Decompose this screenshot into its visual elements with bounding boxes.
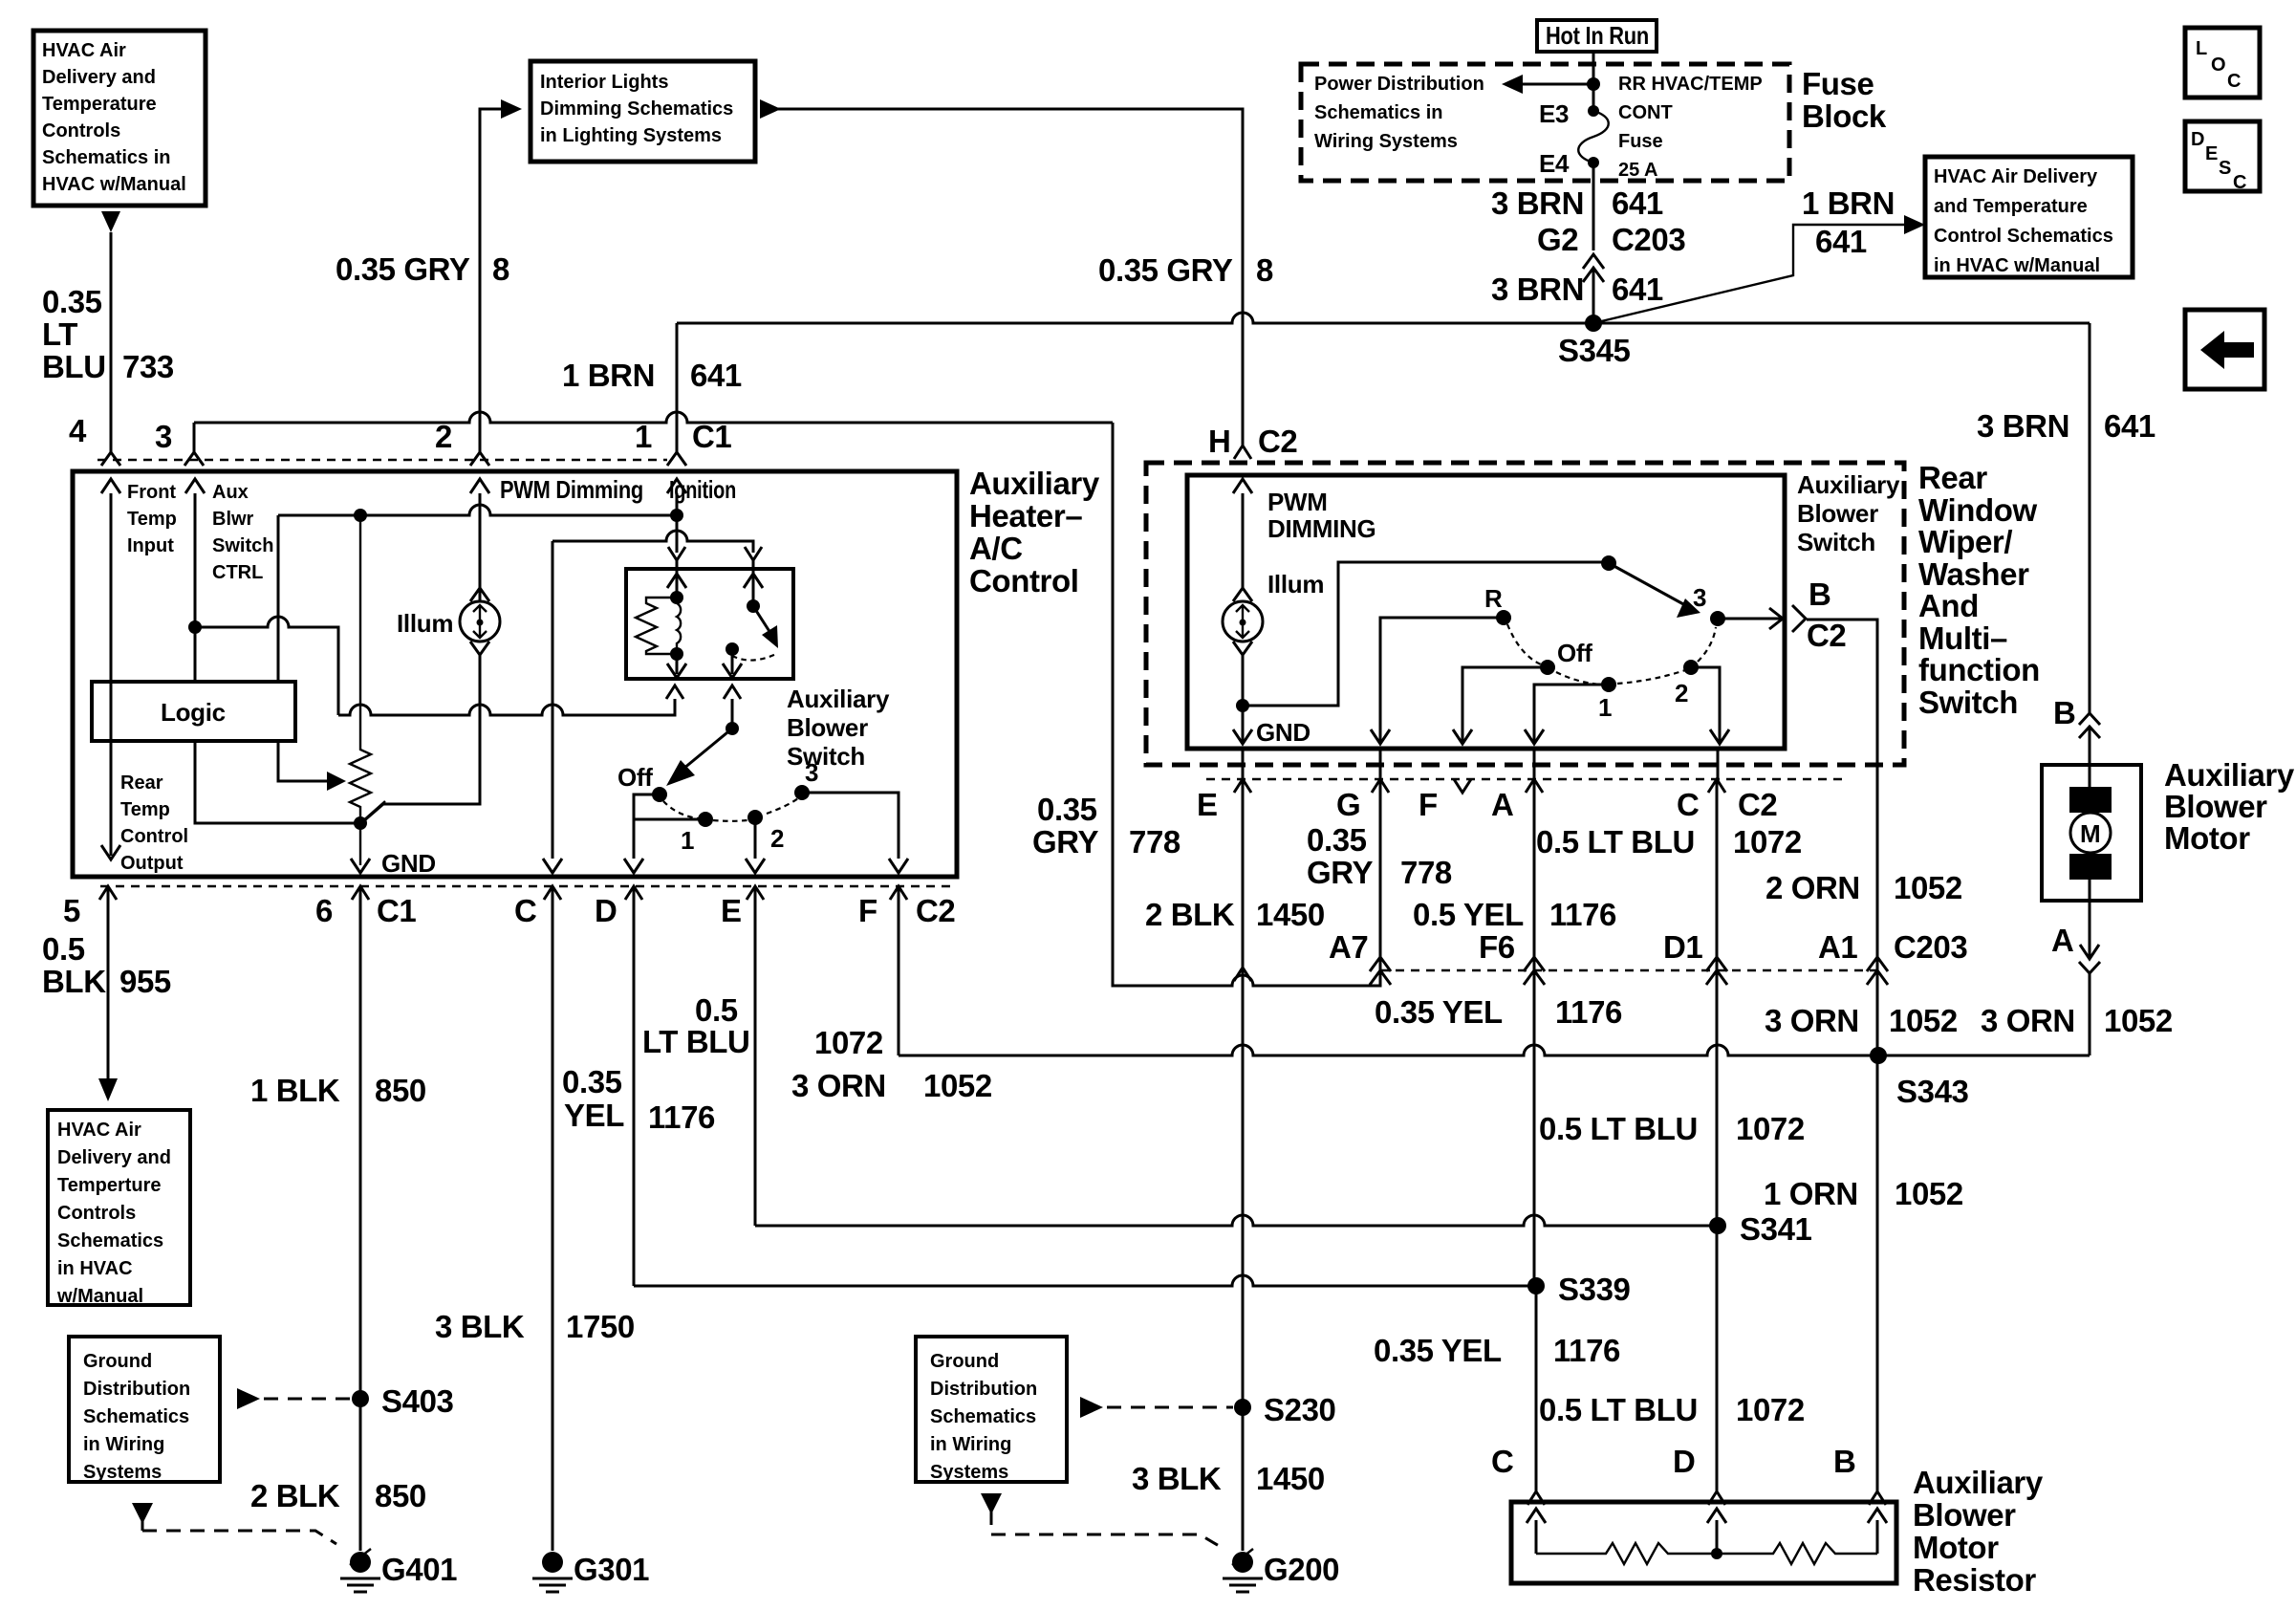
svg-text:1: 1 [681, 826, 694, 855]
svg-text:1176: 1176 [1549, 897, 1616, 932]
svg-text:Blwr: Blwr [212, 509, 254, 530]
svg-text:1052: 1052 [1894, 870, 1962, 905]
wire 3 to pin F [802, 793, 908, 873]
pin arrow up pin4 inside [110, 493, 113, 856]
svg-text:G301: G301 [574, 1552, 649, 1587]
wire pin3 stub to bus [193, 423, 196, 452]
label Fuse Block [1802, 66, 1887, 134]
svg-text:S341: S341 [1740, 1211, 1812, 1247]
switch contact Off (wiper) [1540, 660, 1555, 675]
wire logic to GND net [195, 741, 360, 823]
svg-text:1 ORN: 1 ORN [1764, 1176, 1858, 1211]
svg-text:3: 3 [805, 758, 818, 787]
svg-text:Switch: Switch [787, 742, 865, 771]
connector double chevron motor B [2079, 713, 2100, 738]
svg-text:O: O [2211, 54, 2226, 76]
svg-text:Blower: Blower [2164, 789, 2267, 824]
svg-text:1 BRN: 1 BRN [1802, 185, 1895, 221]
svg-text:DIMMING: DIMMING [1267, 514, 1375, 543]
wire C (wiper) 0.5 LT BLU 1072 down to S341 and resistor D [1716, 781, 1719, 1491]
label 0.5 / LT BLU / 1072 (heater E) [642, 992, 883, 1060]
svg-text:2 BLK: 2 BLK [1145, 897, 1235, 932]
svg-text:Ground: Ground [930, 1351, 999, 1372]
svg-text:S345: S345 [1558, 333, 1631, 368]
node splice S341 [1709, 1217, 1726, 1234]
wire C203 to S345 [1592, 268, 1595, 323]
svg-text:Schematics: Schematics [930, 1406, 1036, 1427]
wire y566 pinC bus to subbox right pin [552, 531, 753, 553]
wire ignition into subbox [676, 515, 679, 553]
arrow into HVAC box from wire 733 [101, 211, 120, 232]
motor brush top [2069, 787, 2112, 813]
wire 1 to pin D vertical [634, 818, 705, 821]
component: Rear Window Wiper/Washer Multifunction Switch dashed box [1146, 463, 1904, 765]
svg-text:8: 8 [1256, 252, 1273, 288]
wire Hot In Run down into fuse block [1592, 52, 1595, 109]
svg-text:1: 1 [635, 419, 652, 454]
potentiometer wiper slash [360, 801, 385, 823]
pin arrow up pin3 (Aux Blwr Switch CTRL) [194, 493, 197, 682]
wire E (wiper) 2 BLK 1450 down to S230/G200 [1242, 781, 1245, 1551]
svg-text:Distribution: Distribution [930, 1379, 1037, 1400]
svg-text:A: A [2051, 923, 2073, 958]
switch contact Off [652, 787, 667, 802]
switch contact 3 [794, 785, 810, 800]
terminal Y pin E (wiper) [1234, 779, 1251, 793]
component: Auxiliary Heater A/C Control box [73, 471, 957, 877]
wire 1 BRN 641: S345 bus y338 from pin1 vertical to motor corner [677, 313, 2090, 323]
node dot GND junction (377,861) [354, 816, 367, 830]
svg-text:E: E [721, 893, 742, 928]
off-page box: HVAC Air Delivery (bottom-left) [48, 1110, 190, 1307]
svg-text:Block: Block [1802, 98, 1887, 134]
svg-text:M: M [2080, 819, 2100, 848]
svg-text:A7: A7 [1329, 929, 1368, 965]
label Rear Window Wiper/ Washer And Multi-function Switch [1918, 460, 2040, 720]
legend box back-arrow [2185, 310, 2264, 389]
svg-text:1052: 1052 [1889, 1003, 1958, 1038]
wire into motor [2089, 727, 2091, 765]
svg-text:Schematics: Schematics [57, 1230, 163, 1251]
wire 3 BRN 641 down to motor B [2089, 323, 2091, 713]
svg-text:PWM: PWM [1267, 488, 1328, 516]
svg-text:C: C [2227, 71, 2241, 92]
terminal Y pin 4 [101, 452, 120, 466]
connector G2/C203 double chevron [1583, 254, 1604, 282]
label 0.35 GRY / 778 (x1164 wire) [1032, 792, 1180, 859]
fuse element RR HVAC/TEMP CONT Fuse 25A: E3/E4 dots and S-curve [1588, 105, 1599, 117]
svg-text:function: function [1918, 652, 2040, 687]
svg-text:B: B [1809, 577, 1830, 612]
svg-text:Hot In Run: Hot In Run [1546, 21, 1649, 50]
svg-text:3: 3 [1693, 583, 1706, 612]
terminal Y ignition pin [668, 547, 685, 560]
off-page box: HVAC Air Delivery and Temperature Control (right) [1925, 157, 2133, 277]
component: Logic box [92, 682, 295, 741]
svg-text:641: 641 [1612, 185, 1663, 221]
arrowhead down on motor A wire [2080, 945, 2099, 959]
svg-text:Blower: Blower [787, 713, 868, 742]
motor circle M [2070, 813, 2111, 853]
svg-text:E: E [2205, 143, 2218, 164]
svg-text:HVAC Air: HVAC Air [42, 40, 126, 61]
label Aux Blwr Switch CTRL [212, 482, 273, 583]
svg-text:R: R [1484, 584, 1503, 613]
svg-text:3 BRN: 3 BRN [1491, 185, 1584, 221]
terminal Y pin C (wiper) [1708, 779, 1725, 793]
node dot at (204,656) [188, 620, 202, 634]
wire pinE 0.5 LT BLU 1072 down to S341 bus [754, 888, 757, 1226]
terminal Y pinF [890, 886, 907, 900]
pin B sideways Y [1792, 605, 1806, 632]
chevrons A1/C203 on B wire [1867, 957, 1888, 985]
subbox moving contact dot [726, 642, 739, 656]
fuse block dashed box [1301, 64, 1789, 181]
svg-text:in HVAC: in HVAC [57, 1258, 133, 1279]
wire pin6 1 BLK 850 to G401 [359, 888, 362, 1551]
terminal Y pin 1 [667, 452, 686, 466]
svg-text:F6: F6 [1479, 929, 1515, 965]
svg-text:HVAC Air: HVAC Air [57, 1120, 141, 1141]
svg-text:3: 3 [155, 419, 172, 454]
wire 0.35 LT BLU 733 (pin 4) [110, 232, 113, 452]
dashed pointer right GDS to S230 [1080, 1397, 1103, 1418]
wire pin2 up to interior lights box with arrow [480, 109, 501, 452]
svg-text:5: 5 [63, 893, 80, 928]
svg-text:0.5 LT BLU: 0.5 LT BLU [1536, 824, 1695, 859]
svg-text:HVAC Air Delivery: HVAC Air Delivery [1934, 166, 2098, 187]
svg-text:Power Distribution: Power Distribution [1314, 74, 1484, 95]
connector C203 dashed line [1380, 969, 1885, 971]
dashed arc wiper switch R-Off-1-2-3 [1507, 624, 1716, 685]
wire lamp down to pot wiper tap [362, 655, 480, 822]
svg-text:Washer: Washer [1918, 556, 2029, 592]
svg-text:Ground: Ground [83, 1351, 152, 1372]
svg-text:0.5 LT BLU: 0.5 LT BLU [1539, 1392, 1698, 1427]
svg-text:C2: C2 [1738, 787, 1777, 822]
label 0.5 BLK / 955 [42, 931, 171, 999]
wire A below S339 to resistor C [1535, 1286, 1538, 1491]
wiper switch pivot dot and arm arrow [1601, 555, 1616, 571]
wire stub A pin through dashed box [1533, 749, 1536, 779]
component: auxiliary blower switch inner box [1187, 475, 1785, 749]
svg-text:0.5 LT BLU: 0.5 LT BLU [1539, 1111, 1698, 1146]
svg-text:E4: E4 [1539, 149, 1570, 178]
svg-text:1072: 1072 [1733, 824, 1802, 859]
svg-text:3 ORN: 3 ORN [1765, 1003, 1859, 1038]
svg-text:G2: G2 [1537, 222, 1578, 257]
svg-text:w/Manual: w/Manual [56, 1286, 143, 1307]
svg-text:0.5: 0.5 [42, 931, 85, 967]
svg-text:C2: C2 [1258, 424, 1297, 459]
switch contact R [1496, 610, 1511, 625]
connector C2 dashed line (wiper bottom) [1206, 778, 1845, 780]
label 0.35 / GRY / 778 (G wire) [1307, 822, 1452, 890]
svg-text:6: 6 [315, 893, 333, 928]
terminal Y pin6 [352, 886, 369, 900]
svg-text:HVAC w/Manual: HVAC w/Manual [42, 174, 186, 195]
svg-text:Auxiliary: Auxiliary [2164, 757, 2295, 793]
wire x291 down with hop over y656 to pot arrow [277, 515, 280, 682]
arrowhead pointing right at potentiometer [327, 772, 346, 791]
svg-text:4: 4 [69, 413, 87, 448]
label Rear Temp Control Output [120, 772, 188, 874]
svg-text:YEL: YEL [564, 1098, 624, 1133]
svg-text:Off: Off [617, 763, 653, 792]
svg-text:Auxiliary: Auxiliary [1913, 1465, 2044, 1500]
wire feed to wiper pivot [1243, 562, 1609, 706]
chevrons A7/C203 on G wire [1370, 957, 1391, 985]
pin arrow down GND (wiper) [1233, 729, 1252, 744]
svg-text:Fuse: Fuse [1618, 131, 1663, 152]
svg-text:1450: 1450 [1256, 897, 1325, 932]
node dot subbox bottom [670, 647, 683, 661]
svg-text:25 A: 25 A [1618, 160, 1658, 181]
wire lamp to GND pin with branch to switch feed [1242, 655, 1245, 744]
wire to Power Distribution with left arrow [1523, 83, 1593, 86]
svg-text:Schematics: Schematics [83, 1406, 189, 1427]
terminal Y resistor C [1527, 1491, 1545, 1505]
legend box LOC [2185, 28, 2260, 98]
label Auxiliary Heater A/C Control [969, 466, 1100, 598]
svg-text:Wiring Systems: Wiring Systems [1314, 131, 1458, 152]
svg-text:Fuse: Fuse [1802, 66, 1874, 101]
svg-text:2: 2 [435, 419, 452, 454]
off-page box: Ground Distribution (left) [69, 1337, 220, 1483]
svg-text:Illum: Illum [1267, 570, 1324, 598]
pin arrow up into subbox (right pin) [744, 560, 763, 606]
switch contact 3 (wiper) [1710, 611, 1725, 626]
switch contact 2 (wiper) [1683, 660, 1699, 675]
svg-text:PWM Dimming: PWM Dimming [500, 475, 643, 504]
svg-text:Control Schematics: Control Schematics [1934, 226, 2113, 247]
chevrons F6/C203 on A wire [1524, 957, 1545, 985]
svg-text:G200: G200 [1264, 1552, 1339, 1587]
wire 2 to pin E [746, 817, 765, 873]
switch contact in subbox: pivot dot and arrow [747, 599, 760, 613]
svg-text:3 ORN: 3 ORN [1981, 1003, 2075, 1038]
svg-text:C: C [1677, 787, 1699, 822]
svg-text:D: D [595, 893, 617, 928]
svg-text:1750: 1750 [566, 1309, 635, 1344]
node dot lamp/feed junction [1236, 699, 1249, 712]
svg-text:Output: Output [120, 853, 184, 874]
svg-text:in Lighting Systems: in Lighting Systems [540, 125, 722, 146]
node dot at (377,539) [354, 509, 367, 522]
wire stub G pin through dashed box [1379, 749, 1382, 779]
svg-text:LT BLU: LT BLU [642, 1024, 749, 1059]
ground symbol G401 [340, 1552, 380, 1592]
svg-text:BLK: BLK [42, 964, 106, 999]
svg-text:Motor: Motor [2164, 820, 2250, 856]
wire R to pin G [1371, 618, 1504, 744]
node splice S403 [352, 1390, 369, 1407]
resistor internal bus with two zigzag resistors [1536, 1543, 1877, 1564]
label Auxiliary Blower Motor Resistor [1913, 1465, 2044, 1598]
chevron pin F (no wire) [1454, 779, 1471, 793]
svg-text:1072: 1072 [1736, 1392, 1805, 1427]
svg-text:Control: Control [120, 826, 188, 847]
svg-text:C2: C2 [1807, 618, 1846, 653]
node: PWM dimming bus y442 from pin3 to x1164 with hops [194, 412, 1113, 423]
svg-text:And: And [1918, 588, 1979, 623]
svg-text:in Wiring: in Wiring [930, 1434, 1011, 1455]
wire stub C pin through dashed box [1717, 749, 1720, 779]
svg-text:C1: C1 [692, 419, 731, 454]
wire pin C vertical inside heater box [543, 541, 562, 873]
label 0.35 LT BLU [42, 284, 106, 384]
label RR HVAC/TEMP CONT Fuse 25 A [1618, 74, 1763, 181]
svg-text:2 BLK: 2 BLK [250, 1478, 340, 1513]
svg-text:Interior Lights: Interior Lights [540, 72, 668, 93]
svg-text:S: S [2219, 158, 2231, 179]
terminal Y pinD [625, 886, 642, 900]
svg-text:850: 850 [375, 1073, 426, 1108]
svg-text:1: 1 [1598, 693, 1612, 722]
svg-text:D1: D1 [1663, 929, 1702, 965]
inline chevron on E wire at C203 level [1234, 968, 1251, 981]
svg-text:Ignition: Ignition [669, 475, 736, 504]
svg-text:1176: 1176 [1553, 1333, 1620, 1368]
svg-text:Systems: Systems [83, 1462, 162, 1483]
pin arrow down GND [351, 859, 370, 873]
wire 2 to pin C [1691, 667, 1729, 744]
svg-text:Switch: Switch [1918, 685, 2018, 720]
svg-text:E: E [1197, 787, 1218, 822]
node splice S339 [1527, 1277, 1545, 1295]
terminal Y pin G [1372, 779, 1389, 793]
wire Off to pin D vertical [634, 794, 660, 859]
wire S345 branch to HVAC w/Manual box (diagonal) [1593, 225, 1908, 323]
svg-text:D: D [1673, 1444, 1695, 1479]
label Auxiliary Blower Switch (wiper) [1797, 470, 1900, 556]
wire S339 bus y1345 to S339 dot [634, 1275, 1536, 1286]
label 0.35 / YEL / 1176 (heater D) [562, 1064, 715, 1135]
svg-text:S403: S403 [381, 1383, 454, 1419]
component: fan-resistor subbox [626, 569, 793, 679]
svg-text:Wiper/: Wiper/ [1918, 524, 2012, 559]
svg-text:F: F [1419, 787, 1438, 822]
svg-text:778: 778 [1400, 855, 1452, 890]
svg-text:Front: Front [127, 482, 176, 503]
ground symbol G301 [532, 1552, 573, 1592]
arrowhead into interior lights box [501, 99, 522, 119]
svg-text:Off: Off [1557, 639, 1592, 667]
svg-text:CTRL: CTRL [212, 562, 263, 583]
svg-text:G: G [1336, 787, 1360, 822]
svg-text:0.5 YEL: 0.5 YEL [1413, 897, 1524, 932]
svg-text:8: 8 [492, 251, 509, 287]
svg-text:and Temperature: and Temperature [1934, 196, 2088, 217]
svg-text:641: 641 [2104, 408, 2155, 444]
label Front Temp Input [127, 482, 177, 556]
svg-text:1072: 1072 [814, 1025, 883, 1060]
wire y656 from aux dot to corner x354 [195, 617, 338, 715]
wire interior-lights to H pin corner [777, 109, 1243, 446]
svg-text:778: 778 [1129, 824, 1180, 859]
svg-text:S343: S343 [1896, 1074, 1969, 1109]
wire 1 to pin A [1525, 685, 1609, 744]
svg-text:C203: C203 [1612, 222, 1685, 257]
node splice S230 [1234, 1399, 1251, 1416]
svg-text:C203: C203 [1894, 929, 1967, 965]
svg-text:Auxiliary: Auxiliary [787, 685, 890, 713]
svg-text:GND: GND [1256, 718, 1310, 747]
pin arrow up pin1 Ignition [676, 493, 679, 515]
pin arrow up into subbox (left pin) [667, 560, 686, 598]
terminal Y resistor D [1708, 1491, 1725, 1505]
svg-text:3 ORN: 3 ORN [791, 1068, 886, 1103]
svg-text:Delivery and: Delivery and [57, 1147, 171, 1168]
resistor internal pins with arrows [1527, 1509, 1546, 1554]
off-page box: Ground Distribution (right) [916, 1337, 1067, 1483]
svg-text:LT: LT [42, 316, 77, 352]
svg-text:0.35: 0.35 [42, 284, 102, 319]
component: Illum lamp (wiper) [1223, 588, 1263, 655]
motor brush bottom [2069, 854, 2112, 880]
svg-text:S339: S339 [1558, 1272, 1631, 1307]
wire A (wiper) 0.35 YEL 1176 down to S339 [1533, 781, 1536, 1286]
svg-text:C: C [2233, 172, 2246, 193]
svg-text:641: 641 [1815, 224, 1867, 259]
svg-text:C1: C1 [377, 893, 416, 928]
svg-text:1052: 1052 [2104, 1003, 2173, 1038]
component: potentiometer (rear temp) zigzag [350, 515, 371, 865]
arrowhead down to HVAC box [98, 1078, 118, 1101]
svg-text:641: 641 [1612, 272, 1663, 307]
svg-text:0.35 GRY: 0.35 GRY [336, 251, 470, 287]
pin arrow down from subbox contact [723, 649, 742, 678]
pin arrow down out of subbox [667, 654, 686, 678]
svg-text:0.5: 0.5 [695, 992, 738, 1028]
label Power Distribution Schematics in Wiring Systems [1314, 74, 1484, 152]
svg-text:3 BRN: 3 BRN [1491, 272, 1584, 307]
svg-text:Blower: Blower [1797, 499, 1878, 528]
svg-text:850: 850 [375, 1478, 426, 1513]
svg-text:D: D [2191, 129, 2204, 150]
svg-text:Temperature: Temperature [42, 94, 157, 115]
connector C1 dashed line top [97, 459, 667, 461]
wire fuse to C203 connector [1592, 163, 1595, 250]
svg-text:Systems: Systems [930, 1462, 1008, 1483]
connector chevrons motor A at C203 [2079, 962, 2100, 973]
svg-text:1052: 1052 [923, 1068, 992, 1103]
ground symbol G200 [1223, 1552, 1263, 1592]
terminal Y subbox right pin [745, 547, 762, 560]
node dot subbox top [670, 591, 683, 604]
svg-text:GRY: GRY [1032, 824, 1098, 859]
svg-text:0.35 GRY: 0.35 GRY [1098, 252, 1233, 288]
wire Off to pin F (unused) [1453, 667, 1548, 744]
svg-text:1052: 1052 [1895, 1176, 1963, 1211]
svg-text:1 BRN: 1 BRN [562, 358, 655, 393]
terminal Y pin 3 [184, 452, 204, 466]
svg-text:1450: 1450 [1256, 1461, 1325, 1496]
svg-text:Blower: Blower [1913, 1497, 2016, 1533]
dashed arc subbox [732, 654, 776, 661]
label PWM DIMMING [1267, 488, 1375, 543]
terminal Y below subbox left pin [666, 685, 683, 699]
wire pinD 0.35 YEL 1176 down to S339 bus [633, 888, 636, 1286]
terminal Y pin H [1234, 446, 1251, 459]
switch contact 1 [698, 812, 713, 827]
svg-text:C2: C2 [916, 893, 955, 928]
switch contact 1 (wiper) [1601, 677, 1616, 692]
wire internal bus y539 from x291 to ignition [278, 505, 677, 515]
svg-text:Controls: Controls [42, 120, 120, 141]
svg-text:Temperture: Temperture [57, 1175, 162, 1196]
wire H pin into box, PWM arrow [1233, 479, 1252, 589]
